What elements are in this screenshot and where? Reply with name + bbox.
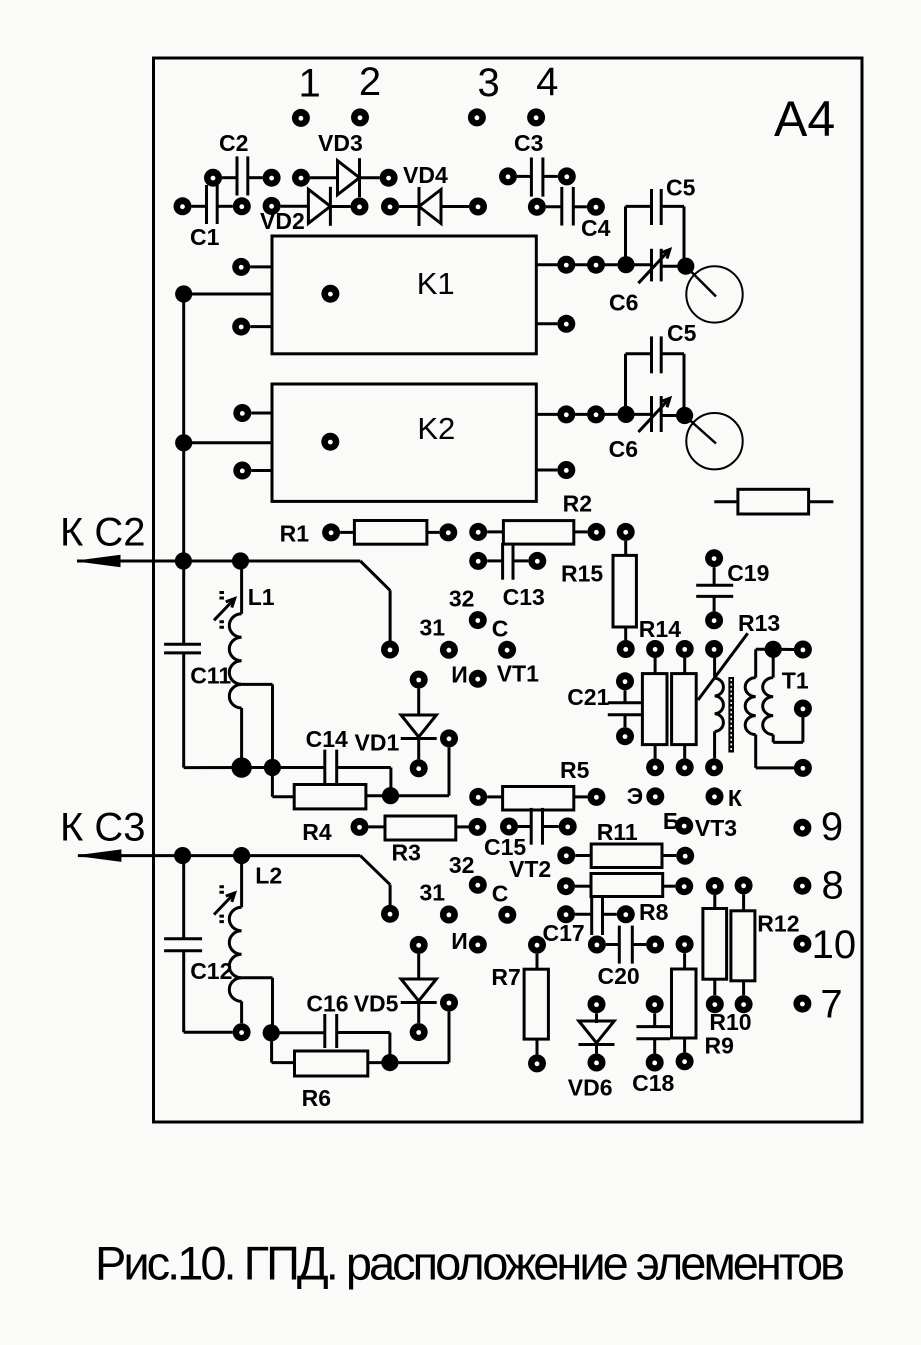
svg-text:R1: R1 (280, 521, 310, 547)
svg-text:9: 9 (821, 805, 843, 849)
pad L2 bottom (233, 1023, 251, 1041)
svg-text:VD5: VD5 (354, 991, 399, 1017)
svg-text:R13: R13 (738, 610, 780, 636)
pad T1 primary bottom (705, 758, 723, 776)
svg-text:C21: C21 (567, 684, 609, 710)
svg-text:C18: C18 (632, 1070, 674, 1096)
svg-text:R11: R11 (597, 819, 638, 845)
pad 2 (351, 108, 369, 126)
svg-text:R4: R4 (302, 819, 332, 845)
svg-text:10: 10 (812, 923, 857, 967)
svg-text:K1: K1 (417, 266, 455, 301)
arrow К С2 (77, 555, 120, 566)
wire (773, 648, 794, 651)
svg-text:3: 3 (477, 61, 499, 105)
svg-text:Э: Э (627, 783, 643, 809)
pad K2 pin right-top-2 (587, 405, 605, 423)
T1 primary winding (713, 658, 716, 678)
pad VT1 source (469, 670, 487, 688)
svg-text:C6: C6 (609, 290, 638, 316)
svg-text:8: 8 (821, 864, 843, 908)
pad VT3 emitter (646, 787, 664, 805)
pad (381, 905, 399, 923)
svg-text:C1: C1 (190, 224, 220, 250)
svg-text:C16: C16 (306, 991, 348, 1017)
svg-text:31: 31 (420, 615, 446, 641)
wire (251, 412, 272, 415)
node (231, 757, 251, 777)
pad VT3 base (675, 817, 693, 835)
pad T1 sec1 bottom (794, 759, 812, 777)
wire (184, 293, 272, 296)
svg-text:2: 2 (359, 60, 381, 104)
svg-text:L2: L2 (255, 862, 282, 888)
wire (448, 1012, 451, 1063)
svg-text:L1: L1 (248, 584, 275, 610)
relay K2 body (272, 384, 536, 501)
node (232, 552, 249, 569)
svg-text:A4: A4 (774, 91, 835, 147)
wire (251, 469, 272, 472)
svg-text:4: 4 (536, 60, 558, 104)
relay K1 body (272, 236, 536, 354)
pad 3 (468, 108, 486, 126)
pad K1 pin right-top-1 (557, 256, 575, 274)
node (381, 1054, 398, 1071)
svg-text:R3: R3 (392, 840, 421, 866)
pad T1 sec top (794, 641, 812, 659)
svg-text:VD3: VD3 (318, 130, 363, 156)
svg-text:R8: R8 (639, 899, 669, 925)
wire to pad (360, 561, 390, 590)
node (264, 759, 281, 776)
svg-text:И: И (451, 662, 468, 688)
svg-text:VT1: VT1 (497, 661, 539, 687)
pad VT2 drain (498, 906, 516, 924)
svg-text:C12: C12 (190, 958, 232, 984)
L2 tuning mark (214, 893, 235, 915)
wire (250, 265, 272, 268)
wire to pad (360, 856, 390, 885)
node (263, 1024, 280, 1041)
wire (250, 325, 272, 328)
wire (184, 766, 325, 769)
pad K2 pin left-top (233, 404, 251, 422)
svg-text:VD1: VD1 (355, 729, 400, 755)
svg-text:VD6: VD6 (568, 1075, 613, 1101)
pad K1 pin left-top (232, 258, 250, 276)
svg-text:32: 32 (449, 852, 475, 878)
pad K1 pin right-top-2 (587, 256, 605, 274)
svg-text:C5: C5 (667, 320, 697, 346)
svg-text:R9: R9 (705, 1033, 734, 1059)
svg-text:VD4: VD4 (403, 162, 448, 188)
svg-text:K2: K2 (417, 411, 455, 446)
wire (184, 441, 272, 444)
wire (536, 263, 617, 266)
wire (536, 469, 557, 472)
svg-text:С: С (492, 880, 509, 906)
svg-text:C11: C11 (190, 662, 231, 688)
wire (448, 747, 451, 795)
svg-text:R14: R14 (639, 616, 681, 642)
pad K2 pin left-bottom (233, 462, 251, 480)
node (617, 256, 634, 273)
svg-text:C14: C14 (306, 726, 348, 752)
trimmer hole (upper) (686, 266, 742, 322)
svg-text:R12: R12 (757, 910, 799, 936)
trimmer hole (lower) (686, 413, 742, 469)
svg-text:R2: R2 (563, 491, 592, 517)
svg-text:C2: C2 (219, 130, 248, 156)
pad VD1 cathode side (440, 729, 458, 747)
pad K1 pin right-bottom (557, 315, 575, 333)
node (382, 787, 399, 804)
pad VD5 cathode side (440, 994, 458, 1012)
svg-text:C20: C20 (598, 963, 640, 989)
svg-text:T1: T1 (782, 668, 809, 694)
wire left bus vertical (182, 294, 185, 644)
pad K1 pin left-bottom (232, 318, 250, 336)
node (174, 847, 191, 864)
svg-text:К С3: К С3 (60, 806, 146, 850)
svg-text:VT2: VT2 (509, 856, 551, 882)
node K1 left (175, 285, 192, 302)
svg-text:C13: C13 (503, 584, 545, 610)
T1 secondary winding 1 (756, 648, 774, 651)
svg-text:C4: C4 (581, 215, 611, 241)
pad K2 pin right-bottom (557, 461, 575, 479)
pad K2 center (321, 433, 339, 451)
node (175, 552, 192, 569)
node K2 left (175, 434, 192, 451)
pad 4 (527, 108, 545, 126)
pad (381, 641, 399, 659)
pad T1 sec2 tap (794, 700, 812, 718)
board outline frame (154, 58, 863, 1122)
svg-text:И: И (451, 928, 468, 954)
T1 secondary winding 2 (772, 649, 775, 677)
pad 10 (793, 935, 811, 953)
pad 9 (793, 819, 811, 837)
node (677, 258, 694, 275)
wire L1 tap (242, 683, 273, 686)
svg-text:R5: R5 (560, 757, 590, 783)
wire (536, 322, 557, 325)
node (233, 847, 250, 864)
node (676, 407, 693, 424)
node T1 right (765, 641, 782, 658)
pad VT3 collector (706, 787, 724, 805)
svg-text:C5: C5 (666, 175, 696, 201)
svg-text:VT3: VT3 (695, 815, 737, 841)
svg-text:К: К (728, 785, 743, 811)
pad VT2 gate-2 (469, 876, 487, 894)
svg-text:К С2: К С2 (60, 511, 146, 555)
L1 tuning mark (214, 599, 235, 621)
pad 1 (292, 109, 310, 127)
svg-text:32: 32 (449, 585, 475, 611)
pad K2 pin right-top-1 (557, 405, 575, 423)
resistor (unlabeled, right) (738, 489, 809, 514)
wire К С3 horizontal (78, 854, 360, 857)
pad 8 (793, 877, 811, 895)
svg-text:С: С (492, 616, 509, 642)
svg-text:R15: R15 (561, 561, 603, 587)
transformer T1 core (728, 677, 734, 753)
pad VT2 gate-1 (440, 906, 458, 924)
pad VT1 gate-2 (469, 611, 487, 629)
svg-text:C19: C19 (727, 560, 769, 586)
wire L2 tap (242, 976, 273, 979)
node (617, 406, 634, 423)
svg-text:C3: C3 (514, 130, 543, 156)
pad VT1 gate-1 (440, 641, 458, 659)
wire К С2 horizontal (77, 560, 360, 563)
arrow К С3 (78, 850, 121, 861)
pad VT2 source (469, 936, 487, 954)
svg-text:R6: R6 (302, 1085, 331, 1111)
svg-text:Рис.10. ГПД. расположение элем: Рис.10. ГПД. расположение элементов (95, 1237, 845, 1290)
svg-text:C6: C6 (609, 436, 638, 462)
svg-text:C17: C17 (543, 920, 585, 946)
svg-text:7: 7 (820, 983, 842, 1027)
wire (536, 413, 617, 416)
pad T1 primary top (705, 640, 723, 658)
pad 7 (793, 995, 811, 1013)
svg-text:31: 31 (420, 879, 446, 905)
pad VT1 drain (498, 641, 516, 659)
svg-text:R7: R7 (491, 964, 520, 990)
pad K1 center (321, 285, 339, 303)
svg-text:1: 1 (298, 62, 320, 106)
